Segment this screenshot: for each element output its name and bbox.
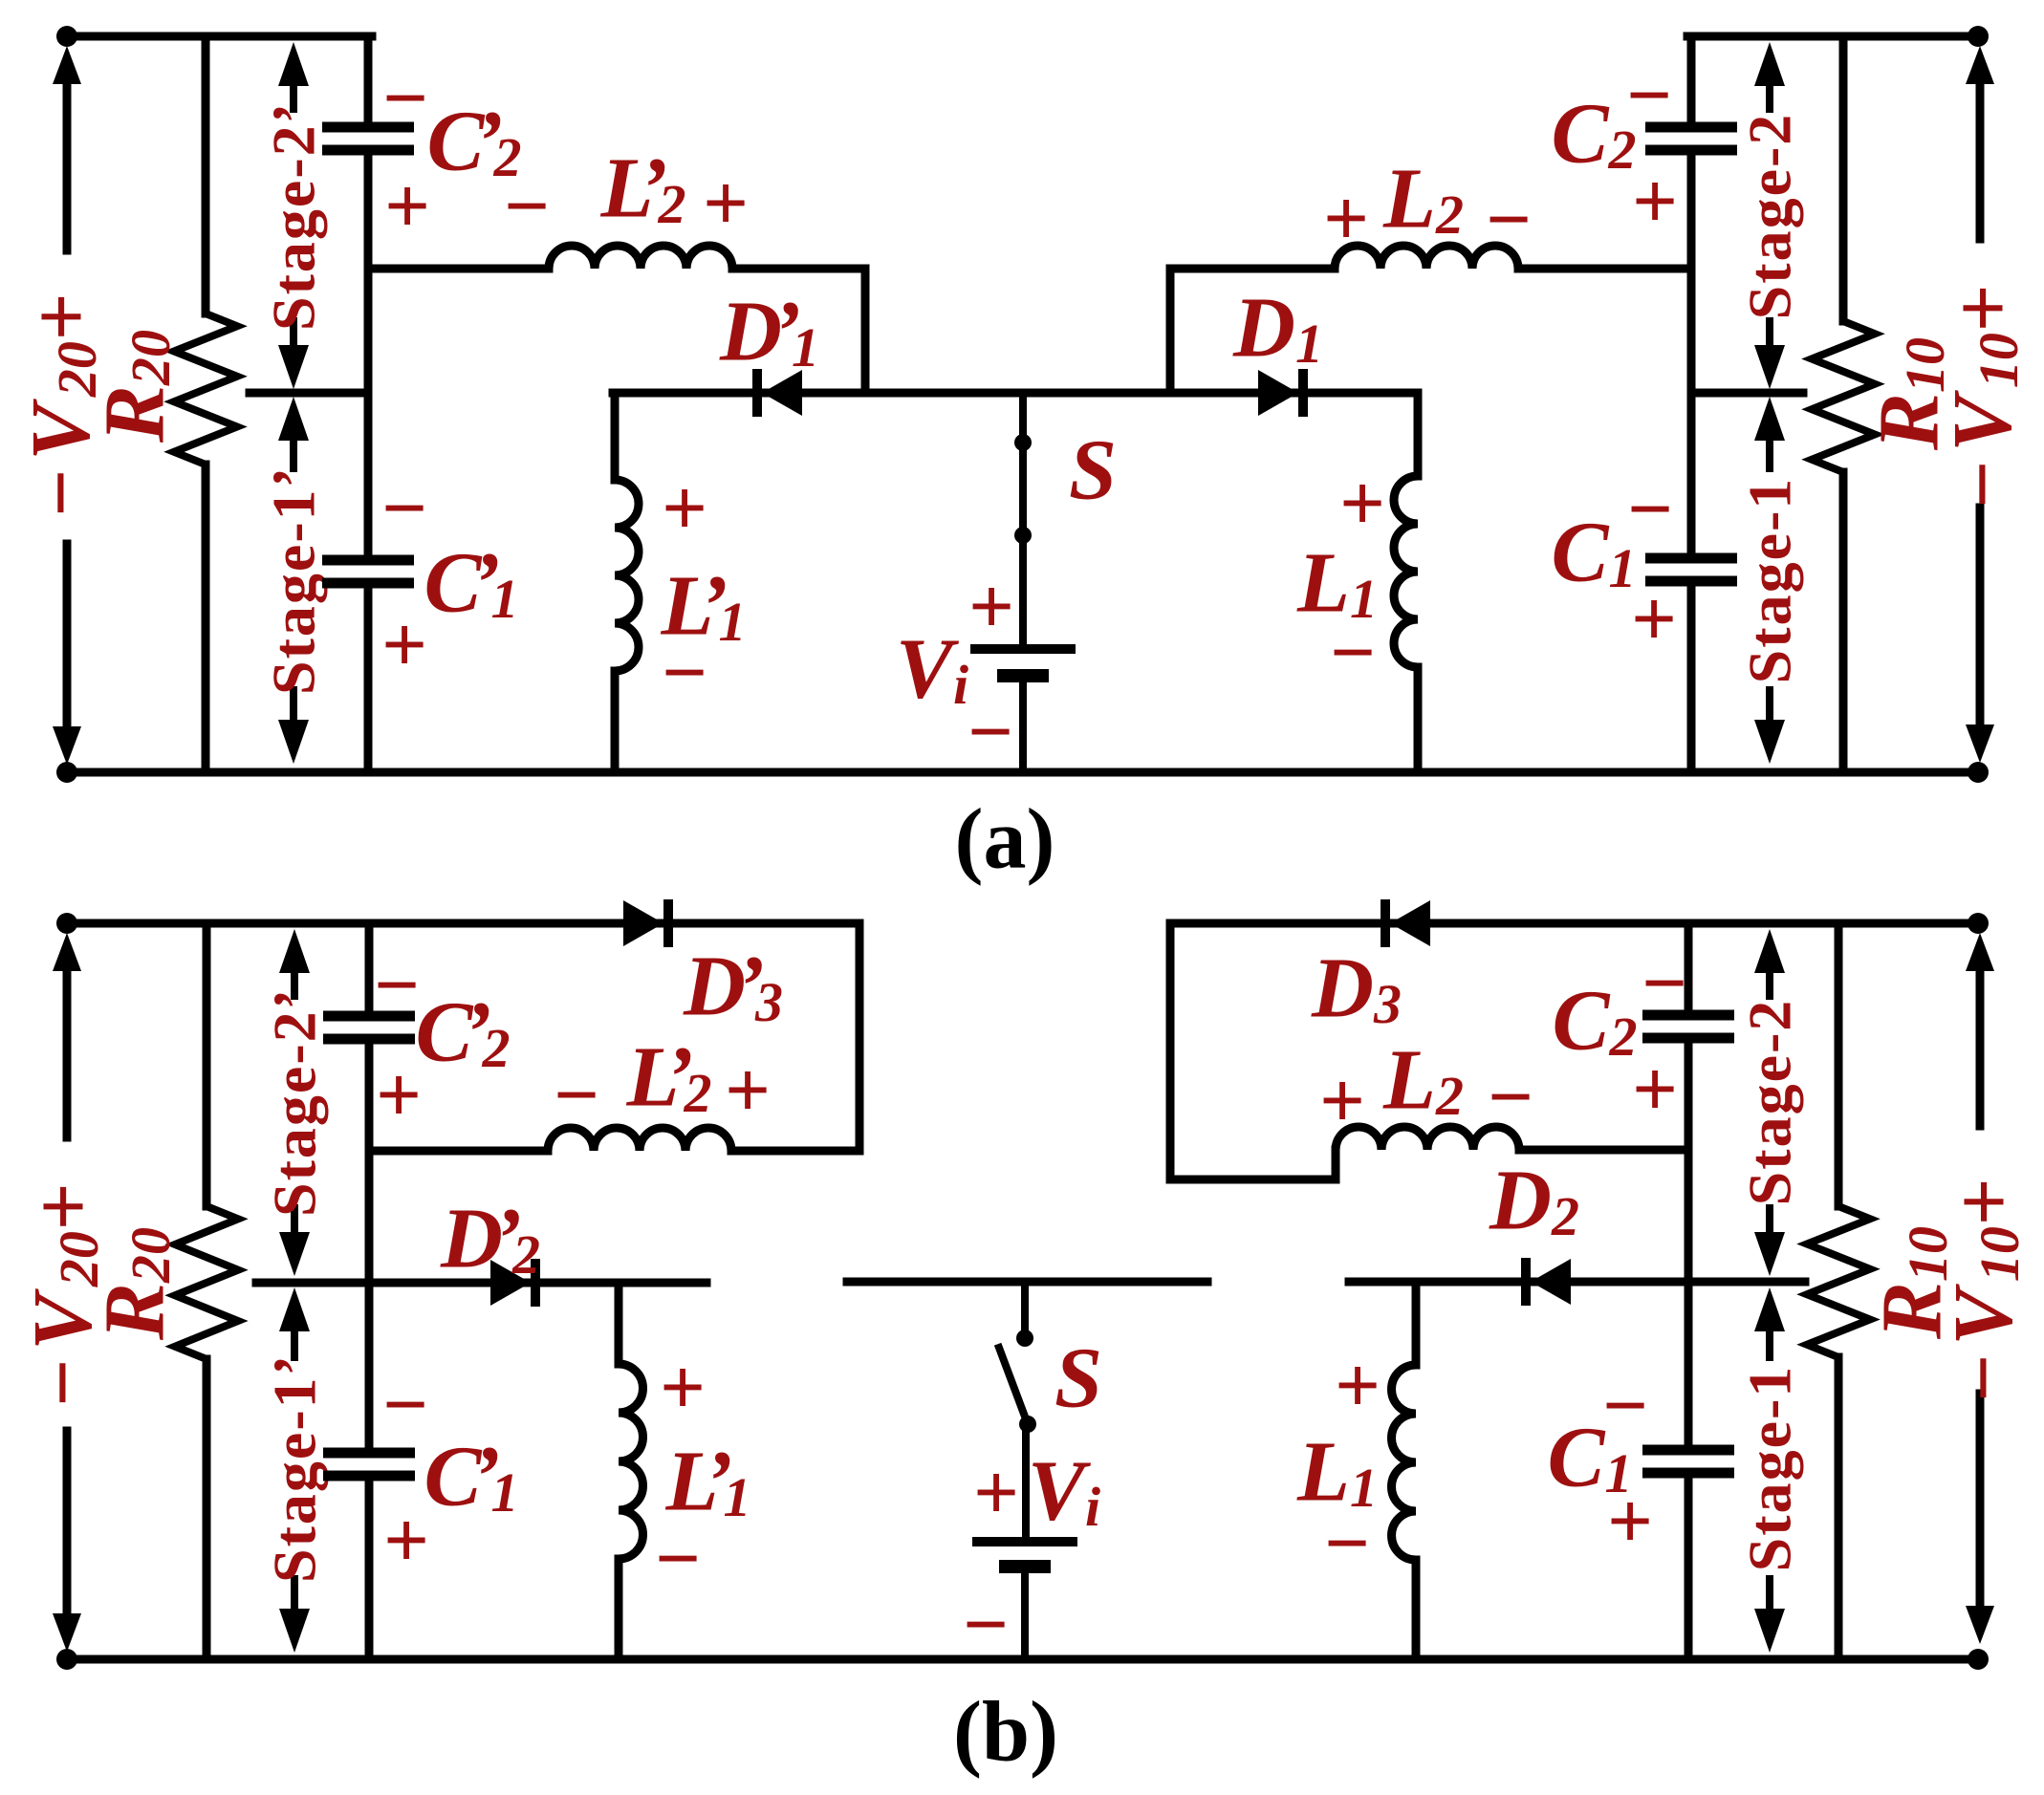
wire (b) center segment with switch bbox=[847, 1278, 1207, 1287]
dimension Stage-1' (a) bbox=[278, 397, 309, 441]
capacitor C1 (b) bbox=[1642, 1445, 1734, 1456]
resistor R20 (b) zigzag bbox=[175, 1206, 238, 1359]
svg-text:Stage-1’: Stage-1’ bbox=[261, 1353, 329, 1583]
wire (b) L'1 bottom lead bbox=[615, 1559, 623, 1659]
wire (b) L1 top lead bbox=[1412, 1282, 1421, 1365]
dimension Stage-2' (b) bbox=[279, 929, 310, 973]
svg-text:−: − bbox=[655, 1515, 701, 1604]
svg-text:Stage-2’: Stage-2’ bbox=[261, 987, 329, 1217]
svg-text:+: + bbox=[1632, 1046, 1678, 1135]
node (a) top-right bbox=[1968, 26, 1989, 47]
wire (b) L2 left step bbox=[1332, 1150, 1340, 1179]
svg-text:−V10+: −V10+ bbox=[1937, 277, 2030, 510]
capacitor C2 (a) bbox=[1645, 122, 1737, 133]
diode D3 (b) bbox=[1381, 899, 1390, 947]
wire (b) switch to battery bbox=[1022, 1424, 1030, 1542]
capacitor C'1 (b) bbox=[323, 1448, 415, 1459]
wire (a) L2 left lead bbox=[1170, 265, 1335, 273]
wire (a) right cap column middle bbox=[1687, 150, 1696, 393]
wire (a) L1 bottom lead bbox=[1414, 667, 1423, 772]
svg-text:Stage-1: Stage-1 bbox=[1736, 477, 1804, 684]
svg-text:Stage-2: Stage-2 bbox=[1736, 113, 1804, 320]
resistor R10 (a) bottom lead bbox=[1839, 472, 1848, 772]
wire (b) L1 bottom lead bbox=[1412, 1560, 1421, 1659]
wire (a) left cap column lower bbox=[364, 393, 373, 560]
svg-text:+: + bbox=[973, 1449, 1019, 1538]
resistor R20 (a) bottom lead bbox=[202, 465, 210, 772]
dimension Stage-2 (b) bbox=[1754, 929, 1785, 973]
arrow V20 (a) lower segment bbox=[63, 544, 72, 731]
svg-text:+: + bbox=[384, 162, 430, 251]
node (a) bottom-left bbox=[56, 762, 77, 783]
dimension Stage-2 (a) bbox=[1754, 42, 1785, 86]
wire (a) left cap column bottom bbox=[364, 583, 373, 772]
svg-text:+: + bbox=[383, 1497, 429, 1586]
svg-text:(a): (a) bbox=[955, 792, 1055, 887]
wire (a) top-left horizontal bbox=[67, 32, 372, 41]
wire (b) L'2 left lead bbox=[369, 1147, 548, 1156]
wire (a) L'2 left lead bbox=[368, 265, 549, 273]
dimension Stage-2' (a) bbox=[278, 42, 309, 86]
inductor L2 (a) bbox=[1335, 246, 1518, 269]
svg-text:−: − bbox=[554, 1051, 599, 1140]
arrow V20 (b) upper segment bbox=[53, 933, 81, 971]
svg-text:−: − bbox=[504, 162, 550, 251]
resistor R20 (b) top lead bbox=[203, 923, 211, 1206]
dimension Stage-1 (a) bbox=[1754, 397, 1785, 441]
inductor L'2 (a) bbox=[549, 246, 732, 269]
wire (a) mid junction stub right bbox=[1691, 389, 1803, 398]
wire (b) top-left horizontal bbox=[67, 919, 859, 928]
diode D'3 (b) bbox=[623, 900, 663, 946]
svg-text:+: + bbox=[660, 1344, 706, 1433]
node (b) bottom-right bbox=[1968, 1649, 1989, 1670]
capacitor C'1 (a) bbox=[322, 555, 414, 566]
arrow V10 (a) upper segment bbox=[1966, 46, 1994, 84]
svg-text:+: + bbox=[968, 563, 1014, 652]
wire (b) top-right horizontal bbox=[1170, 919, 1978, 928]
wire (b) L'2 right lead bbox=[731, 1147, 859, 1156]
wire (b) L2 right lead bbox=[1519, 1146, 1688, 1155]
switch S (a) upper contact bbox=[1019, 393, 1027, 443]
switch S (a) lower contact bbox=[1014, 527, 1032, 544]
battery Vi (b) bbox=[972, 1537, 1077, 1546]
wire (a) L'2 right lead bbox=[732, 265, 865, 273]
svg-text:+: + bbox=[376, 1051, 422, 1140]
arrow V10 (b) upper segment bbox=[1966, 933, 1994, 971]
wire (a) L'1 bottom lead bbox=[611, 671, 620, 772]
wire (b) L2 lower-left lead bbox=[1170, 1176, 1336, 1184]
svg-text:Stage-2: Stage-2 bbox=[1736, 999, 1804, 1206]
wire (b) right mid row bbox=[1349, 1278, 1805, 1287]
wire (b) L'1 top lead bbox=[615, 1283, 623, 1364]
resistor R20 (b) bottom lead bbox=[203, 1359, 211, 1659]
svg-text:S: S bbox=[1069, 423, 1117, 518]
resistor R10 (b) zigzag bbox=[1807, 1206, 1870, 1357]
svg-text:−: − bbox=[662, 629, 707, 718]
svg-text:Stage-1: Stage-1 bbox=[1736, 1365, 1804, 1572]
svg-text:+: + bbox=[1319, 1057, 1365, 1146]
capacitor C'2 (a) bbox=[322, 122, 414, 133]
wire (b) right cap column upper bbox=[1685, 923, 1693, 1015]
wire (a) L'1 top lead bbox=[611, 393, 620, 480]
capacitor C1 (a) bbox=[1645, 553, 1737, 564]
node (a) bottom-right bbox=[1968, 762, 1989, 783]
arrow V10 (a) lower segment bbox=[1976, 508, 1985, 731]
resistor R10 (a) zigzag bbox=[1812, 321, 1875, 472]
wire (a) left cap column middle bbox=[364, 150, 373, 393]
svg-text:+: + bbox=[725, 1047, 771, 1135]
wire (a) switch to battery bbox=[1019, 535, 1027, 649]
wire (b) L2 left drop bbox=[1166, 923, 1175, 1179]
inductor L'1 (a) bbox=[615, 480, 639, 671]
inductor L1 (b) bbox=[1392, 1365, 1416, 1560]
wire (b) left mid row bbox=[256, 1279, 707, 1287]
resistor R20 (a) zigzag bbox=[174, 314, 237, 465]
wire (a) diode row bbox=[613, 389, 1418, 398]
resistor R10 (b) top lead bbox=[1835, 923, 1843, 1206]
svg-text:+: + bbox=[703, 160, 749, 249]
svg-text:+: + bbox=[381, 601, 427, 690]
svg-text:−: − bbox=[1486, 176, 1532, 265]
wire (a) L2 left drop bbox=[1166, 269, 1175, 393]
svg-text:−: − bbox=[382, 54, 428, 143]
wire (b) left cap column lower bbox=[365, 1283, 374, 1453]
arrow V20 (a) upper segment bbox=[53, 46, 81, 84]
svg-text:−: − bbox=[374, 941, 420, 1030]
wire (b) left cap column middle bbox=[365, 1039, 374, 1283]
svg-text:Stage-2’: Stage-2’ bbox=[260, 101, 328, 331]
wire (a) bottom horizontal bbox=[67, 768, 1978, 777]
wire (a) L1 top lead bbox=[1414, 393, 1423, 476]
inductor L2 (b) bbox=[1336, 1127, 1519, 1150]
node (a) top-left bbox=[56, 26, 77, 47]
svg-text:−: − bbox=[381, 465, 427, 553]
dimension Stage-1 (b) bbox=[1754, 1287, 1785, 1331]
svg-text:−: − bbox=[1324, 1500, 1370, 1589]
wire (b) bottom horizontal bbox=[67, 1655, 1978, 1664]
battery Vi (a) bbox=[970, 644, 1076, 654]
wire (b) right cap column lower bbox=[1685, 1282, 1693, 1450]
svg-text:−: − bbox=[963, 1581, 1009, 1670]
wire (b) battery to bottom bbox=[1021, 1567, 1029, 1659]
dimension Stage-1' (b) bbox=[279, 1287, 310, 1331]
wire (a) L'2 right drop bbox=[861, 269, 870, 393]
wire (a) L2 right lead bbox=[1518, 265, 1691, 273]
wire (a) battery to bottom bbox=[1019, 676, 1027, 772]
svg-text:+: + bbox=[1632, 158, 1678, 247]
svg-text:−: − bbox=[1642, 940, 1687, 1028]
svg-text:+: + bbox=[1607, 1478, 1653, 1567]
svg-text:S: S bbox=[1055, 1331, 1102, 1426]
wire (b) right cap column middle bbox=[1685, 1038, 1693, 1282]
switch S (b) open blade bbox=[999, 1348, 1028, 1424]
inductor L'1 (b) bbox=[619, 1364, 643, 1559]
arrow V20 (b) lower segment bbox=[63, 1431, 72, 1619]
svg-text:Stage-1’: Stage-1’ bbox=[260, 465, 328, 695]
resistor R10 (b) bottom lead bbox=[1835, 1357, 1843, 1659]
diode D'1 (a) bbox=[752, 369, 762, 417]
arrow V10 (b) lower segment bbox=[1976, 1394, 1985, 1611]
node (b) top-right bbox=[1968, 913, 1989, 934]
svg-text:−: − bbox=[382, 1361, 428, 1450]
wire (a) top-right horizontal bbox=[1687, 32, 1978, 41]
capacitor C2 (b) bbox=[1642, 1010, 1734, 1021]
wire (b) left cap column bottom bbox=[365, 1476, 374, 1659]
switch S (b) lower contact bbox=[1019, 1416, 1036, 1433]
wire (a) right cap column upper bbox=[1687, 36, 1696, 127]
resistor R10 (a) top lead bbox=[1839, 36, 1848, 321]
inductor L1 (a) bbox=[1394, 476, 1418, 667]
capacitor C'2 (b) bbox=[323, 1011, 415, 1022]
wire (a) right cap column bottom bbox=[1687, 581, 1696, 772]
switch S (b) stub bbox=[1021, 1282, 1029, 1338]
svg-text:−: − bbox=[968, 688, 1013, 777]
svg-text:−: − bbox=[1330, 609, 1376, 698]
diode D'2 (b) bbox=[490, 1260, 531, 1306]
svg-text:−V10+: −V10+ bbox=[1938, 1171, 2031, 1404]
node (b) top-left bbox=[56, 913, 77, 934]
wire (b) top-left corner drop bbox=[856, 923, 864, 1151]
wire (a) right cap column lower bbox=[1687, 393, 1696, 558]
svg-text:+: + bbox=[1631, 575, 1677, 664]
svg-text:+: + bbox=[1335, 1342, 1381, 1431]
svg-text:+: + bbox=[1323, 175, 1369, 264]
wire (b) left cap column upper bbox=[365, 923, 374, 1016]
diode D2 (b) bbox=[1521, 1258, 1531, 1306]
switch S (a) closed blade bbox=[1019, 443, 1027, 535]
switch S (b) upper contact bbox=[1016, 1330, 1033, 1347]
wire (a) left cap column upper bbox=[364, 36, 373, 127]
diode D1 (a) bbox=[1258, 370, 1298, 416]
node (b) bottom-left bbox=[56, 1649, 77, 1670]
resistor R20 (a) top lead bbox=[202, 36, 210, 314]
svg-text:−: − bbox=[1488, 1053, 1533, 1142]
wire (b) right cap column bottom bbox=[1685, 1473, 1693, 1659]
inductor L'2 (b) bbox=[548, 1128, 731, 1151]
svg-text:(b): (b) bbox=[953, 1685, 1058, 1780]
svg-text:−: − bbox=[1602, 1362, 1648, 1451]
wire (a) mid junction stub left bbox=[250, 389, 368, 398]
svg-text:+: + bbox=[662, 465, 707, 553]
